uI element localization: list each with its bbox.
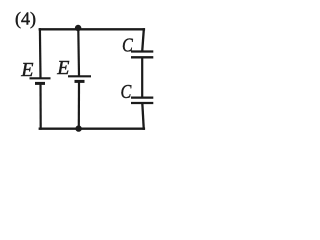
svg-text:E: E bbox=[56, 57, 69, 79]
junction dot bottom bbox=[75, 125, 81, 131]
svg-text:C: C bbox=[122, 34, 133, 56]
capacitor C2 bbox=[131, 98, 153, 103]
wire left lower bbox=[39, 83, 41, 129]
junction dot top bbox=[75, 25, 81, 31]
wire right between capacitors bbox=[141, 57, 143, 97]
wire left upper bbox=[39, 28, 42, 78]
battery E1 bbox=[30, 78, 51, 83]
wire right lower bbox=[142, 103, 144, 130]
wire right upper bbox=[142, 28, 144, 51]
capacitor C1 bbox=[131, 52, 153, 58]
svg-text:E: E bbox=[20, 59, 33, 81]
wire bottom bbox=[39, 127, 146, 129]
wire middle lower bbox=[78, 81, 80, 128]
svg-text:C: C bbox=[121, 81, 132, 103]
svg-text:(4): (4) bbox=[15, 9, 36, 30]
wire top bbox=[39, 28, 146, 30]
wire middle upper bbox=[77, 29, 80, 76]
battery E2 bbox=[68, 76, 91, 81]
